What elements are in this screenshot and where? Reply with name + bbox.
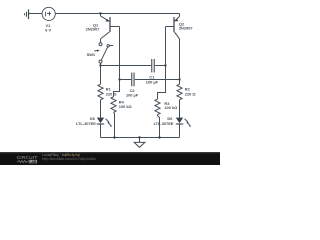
resistor R2 bbox=[177, 84, 182, 100]
svg-text:100 µF: 100 µF bbox=[146, 80, 159, 85]
capacitor C1 bbox=[152, 59, 155, 72]
svg-text:LTL-307EE: LTL-307EE bbox=[154, 121, 174, 126]
node junction R4 / rail bbox=[113, 136, 115, 138]
wire R4 branch with jog bbox=[114, 80, 120, 97]
svg-text:2N2907: 2N2907 bbox=[179, 26, 193, 31]
label Q1 2N2907 bbox=[86, 23, 100, 32]
wire Q1 collector down bbox=[100, 39, 102, 43]
transistor Q2 bbox=[166, 14, 180, 39]
svg-text:LTL-307EE: LTL-307EE bbox=[76, 121, 96, 126]
node junction R3 / rail bbox=[158, 136, 160, 138]
wire Q2 base to R3 with jog bbox=[158, 66, 166, 100]
svg-text:LAB: LAB bbox=[29, 160, 37, 164]
label R1 220 ohm bbox=[106, 87, 117, 97]
wire ground to battery bbox=[29, 13, 42, 15]
svg-text:SW1: SW1 bbox=[87, 52, 96, 57]
wire Q2 base vertical bbox=[165, 27, 167, 66]
resistor R1 bbox=[98, 84, 103, 100]
watermark bar bbox=[0, 152, 220, 165]
switch SW1 bbox=[94, 43, 113, 63]
wire upper coupling (left of C1) bbox=[101, 65, 152, 67]
wire D6 to bottom rail bbox=[179, 124, 181, 137]
transistor Q1 bbox=[101, 14, 120, 39]
ground (battery minus, left) bbox=[25, 9, 29, 19]
wire R3 to bottom rail bbox=[158, 115, 160, 138]
capacitor C2 bbox=[132, 73, 134, 87]
svg-text:100 kΩ: 100 kΩ bbox=[119, 104, 132, 109]
node junction C1 / Q2 base bbox=[164, 64, 166, 66]
label D5 LTL-307EE bbox=[76, 116, 96, 126]
wire lower coupling (right of C2) bbox=[135, 79, 180, 81]
wire switch to junction bbox=[100, 63, 102, 65]
wire R1 to D5 bbox=[100, 100, 102, 118]
svg-text:http://circuitlab.com/c2z7bqk4: http://circuitlab.com/c2z7bqk4cu6kb bbox=[42, 157, 96, 161]
battery V1 bbox=[42, 7, 55, 20]
ground (bottom rail) bbox=[134, 138, 145, 148]
svg-text:100 µF: 100 µF bbox=[126, 93, 139, 98]
node junction below switch bbox=[99, 64, 101, 66]
label D6 LTL-307EE bbox=[154, 116, 174, 126]
label V1 6 V bbox=[45, 23, 51, 33]
wire R2 to D6 bbox=[179, 100, 181, 118]
svg-text:220 Ω: 220 Ω bbox=[106, 91, 117, 96]
wire Q1 base vertical bbox=[119, 27, 121, 80]
label R2 220 ohm bbox=[185, 87, 196, 97]
wire D5 to bottom rail bbox=[100, 124, 102, 137]
label Q2 2N2907 bbox=[179, 22, 193, 31]
svg-text:6 V: 6 V bbox=[45, 27, 51, 32]
label R3 100 kohm bbox=[164, 101, 177, 110]
resistor R3 bbox=[155, 99, 160, 115]
label C1 100 uF bbox=[146, 75, 159, 85]
LED D5 bbox=[97, 118, 112, 127]
node junction Q1 base / C2 bbox=[118, 78, 120, 80]
svg-text:220 Ω: 220 Ω bbox=[185, 91, 196, 96]
wire bottom rail bbox=[101, 137, 180, 139]
label SW1 bbox=[87, 52, 96, 57]
label R4 100 kohm bbox=[119, 100, 132, 110]
wire R4 to bottom rail bbox=[114, 112, 115, 137]
node junction C2 / Q2 collector bbox=[178, 78, 180, 80]
svg-text:2N2907: 2N2907 bbox=[86, 27, 100, 32]
wire junction to R1 bbox=[100, 66, 102, 85]
node junction top rail / Q1 emitter bbox=[99, 12, 101, 14]
node junction ground / rail bbox=[138, 136, 140, 138]
wire top rail bbox=[55, 13, 179, 15]
svg-text:D6: D6 bbox=[167, 116, 173, 121]
wire upper coupling (right of C1) bbox=[155, 65, 166, 67]
label C2 100 uF bbox=[126, 88, 139, 98]
wire lower coupling (left of C2) bbox=[120, 79, 132, 81]
svg-text:100 kΩ: 100 kΩ bbox=[164, 105, 177, 110]
wire Q2 collector down bbox=[179, 39, 181, 84]
LED D6 bbox=[176, 118, 191, 127]
resistor R4 bbox=[111, 97, 116, 113]
logo CircuitLab bbox=[17, 155, 38, 160]
